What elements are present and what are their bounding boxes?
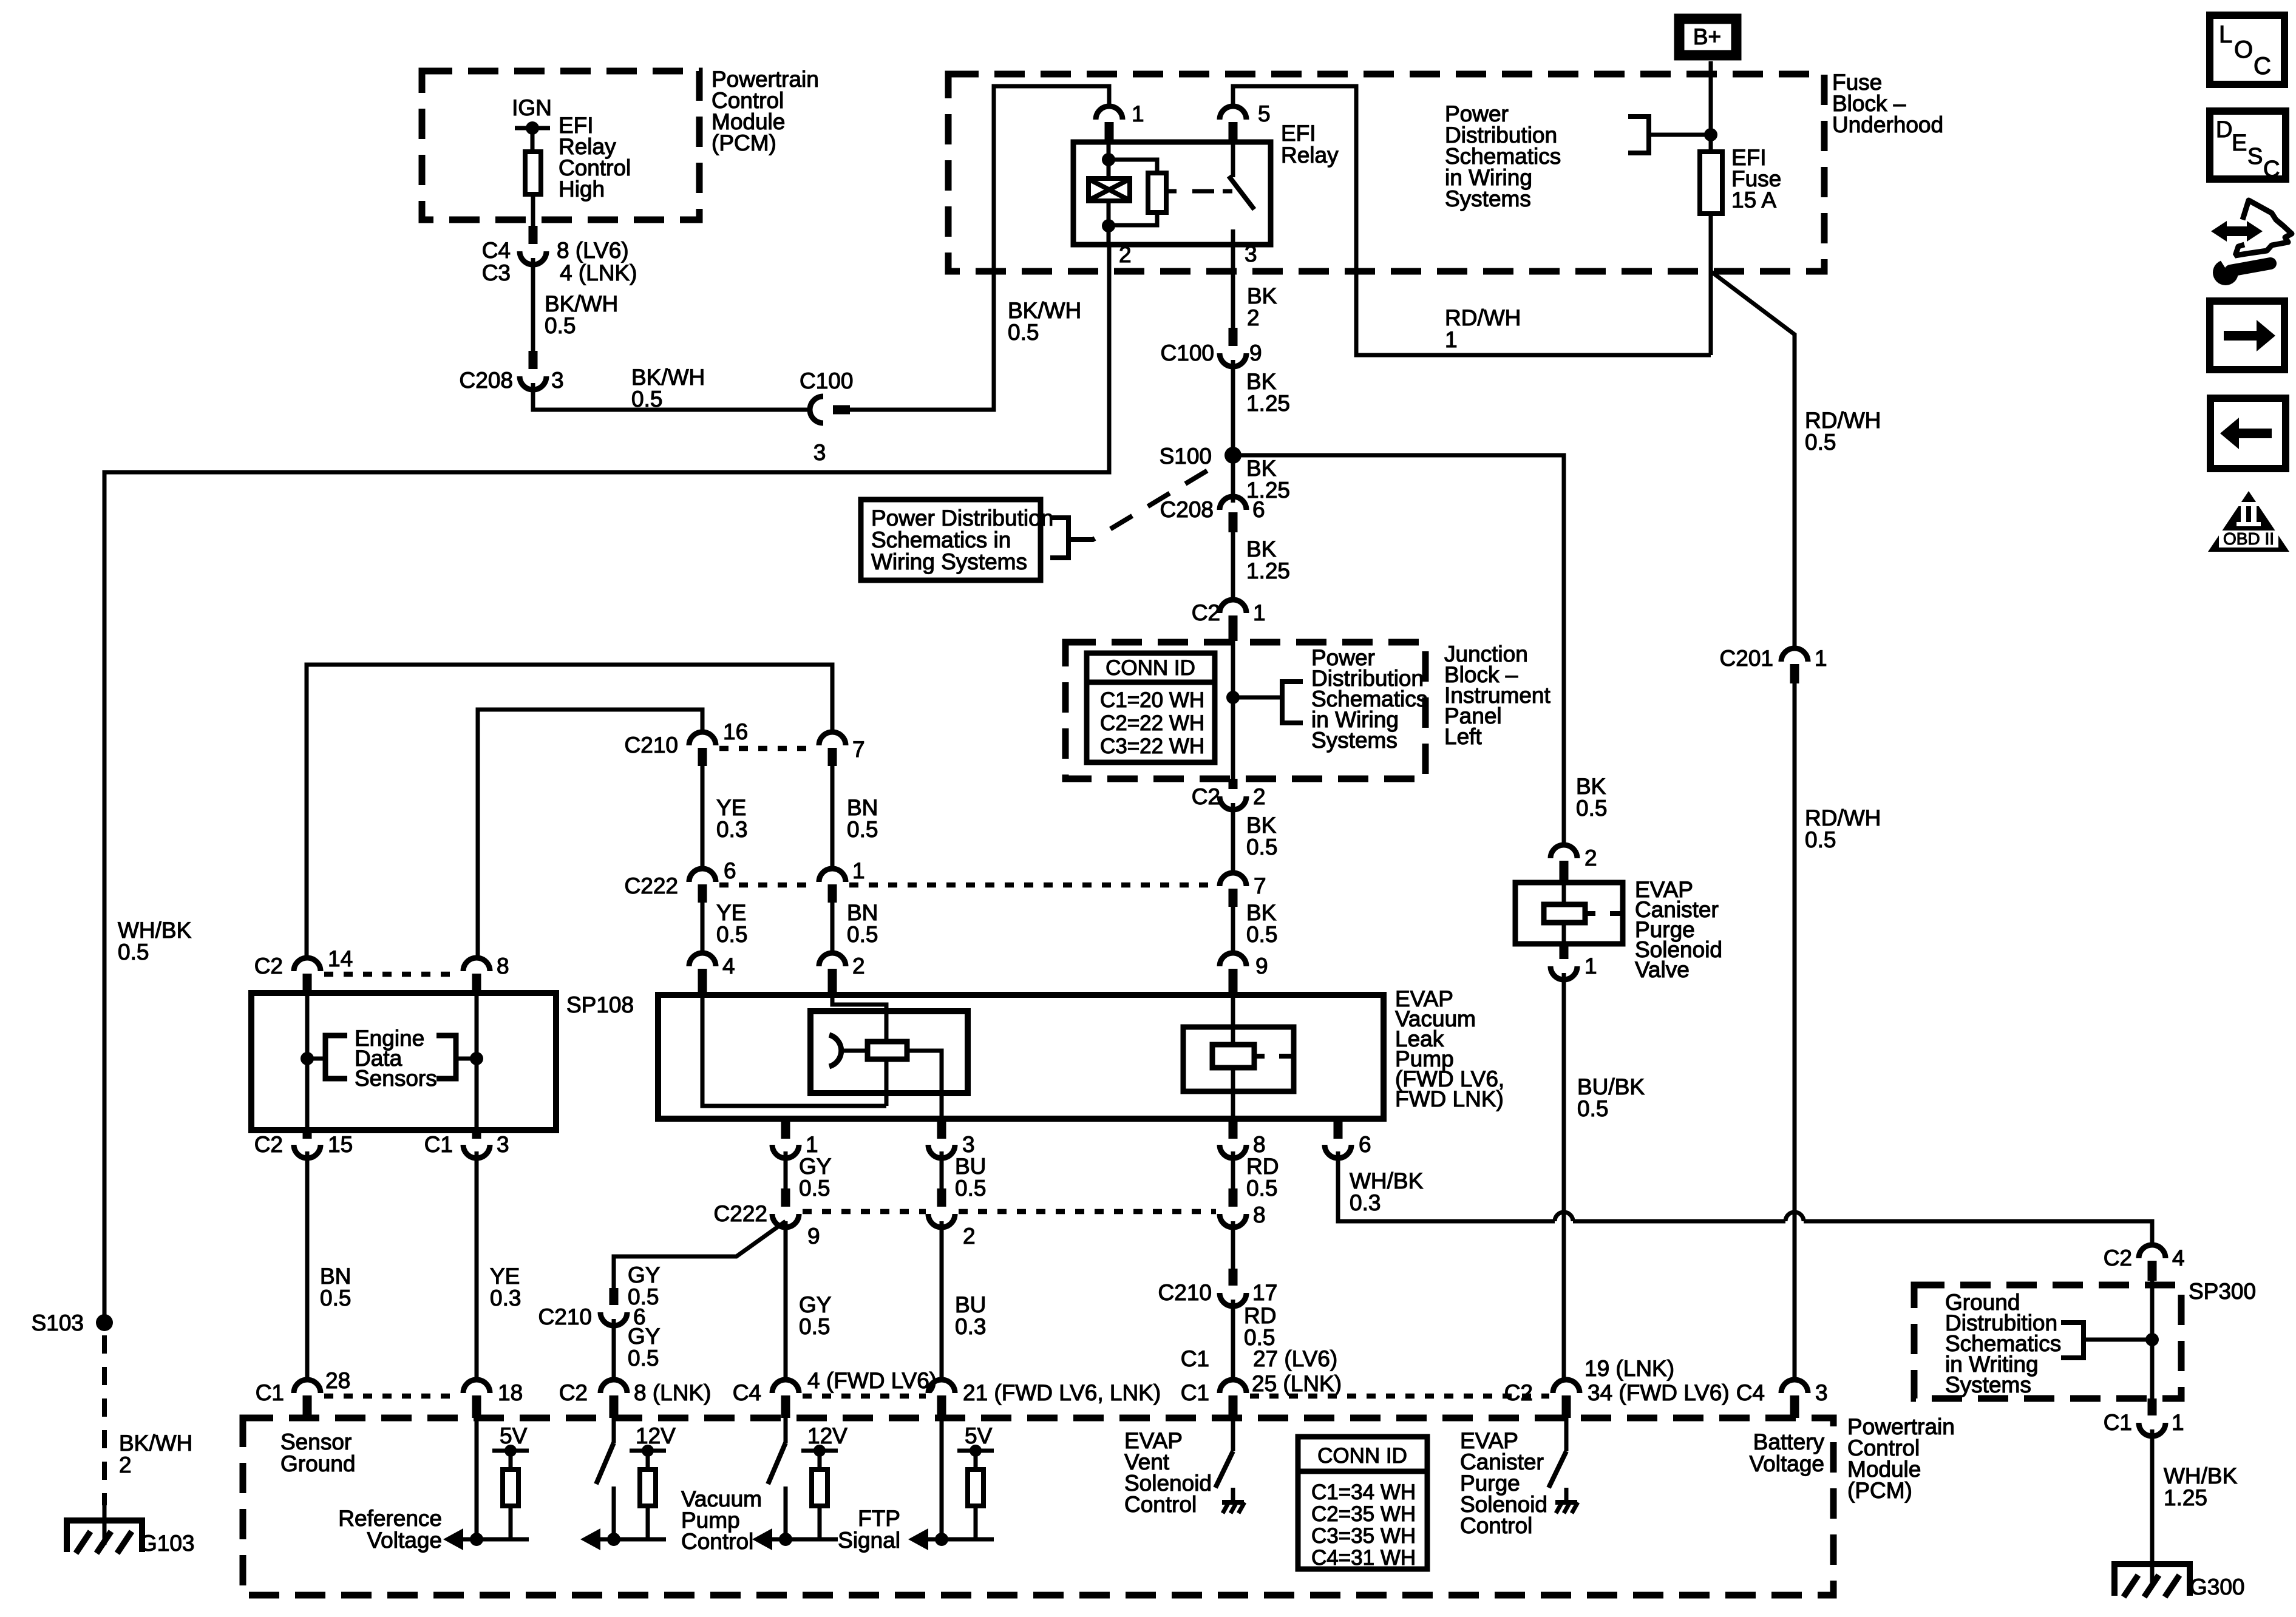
svg-text:C4: C4 [1736,1380,1765,1405]
arrow FTP column [752,1528,772,1550]
pin tick below C222-6 [698,884,707,903]
wire pin1 into coil with junction dot [1107,142,1111,178]
svg-text:BK: BK [1246,456,1277,481]
ground symbol (purge solenoid) [1564,1488,1569,1501]
svg-text:Underhood: Underhood [1832,112,1943,137]
connector C2 pin 34 arc [1553,1380,1580,1393]
wire C208-3 down and right to C100 [533,383,809,410]
wire C222-6 to pump pin 4 [701,903,705,954]
svg-text:1: 1 [1253,600,1266,625]
svg-text:0.3: 0.3 [1350,1190,1381,1215]
wire pump pin6 WH/BK 0.3 to SP300 run [1338,1151,1555,1221]
wire motor to element [843,1049,868,1053]
svg-text:C1: C1 [256,1380,284,1405]
dashed link C222 1-7 [849,883,1216,888]
connector C2 pin 15 arc [294,1145,321,1158]
svg-text:BK: BK [1246,813,1277,838]
svg-text:RD/WH: RD/WH [1805,408,1881,433]
svg-text:C1=20 WH: C1=20 WH [1100,688,1204,712]
svg-text:Battery: Battery [1753,1429,1825,1454]
ground symbol (vent solenoid) [1231,1488,1235,1501]
wire C2-15 to C1-28 [305,1151,310,1381]
wire pump pin1 to C222-9 [784,1151,788,1188]
dashed link C222 2-8 [959,1209,1216,1215]
valve solenoid element [1544,904,1585,923]
pin tick below pin 18 [472,1395,481,1418]
svg-text:C: C [2263,157,2280,182]
svg-text:Voltage: Voltage [1750,1451,1824,1476]
side icon DESC box [2210,111,2286,179]
EFI Fuse 15 A element [1700,152,1722,214]
side icon back arrow box [2210,398,2286,469]
wire valve pin 1 to C2-34 BU/BK [1562,973,1566,1381]
svg-text:BK/WH: BK/WH [631,365,705,390]
pin tick below C4-4 [781,1395,790,1418]
pin tick above C2-2 [1229,779,1238,789]
connector pin 21 arc [928,1380,955,1393]
svg-text:17: 17 [1252,1280,1277,1305]
junction dot [470,1533,483,1546]
pin tick above pump pin 3 [937,1119,946,1139]
side icon OBD II triangle [2208,491,2289,552]
pin tick above C222-2 [937,1188,946,1207]
dashed link C210 16-7 [719,746,815,751]
svg-text:27 (LV6): 27 (LV6) [1253,1346,1337,1371]
svg-text:C1: C1 [1181,1380,1209,1405]
Power Distribution Schematics in Wiring Systems note box [861,500,1041,580]
svg-text:BU/BK: BU/BK [1577,1074,1645,1099]
svg-text:C4: C4 [733,1380,761,1405]
wires through sensor box [305,993,310,1130]
connector pin 18 arc [463,1380,490,1393]
wire pump pin3 to C222-2 [940,1151,944,1188]
svg-text:C2: C2 [254,1132,283,1157]
relay coil (box with X) [1089,178,1130,201]
svg-text:0.5: 0.5 [716,922,747,947]
svg-text:C201: C201 [1720,646,1773,671]
connector C100 pin 3 arc [810,396,823,423]
svg-text:BK: BK [1246,369,1277,394]
svg-text:Control: Control [681,1529,753,1554]
svg-text:C3=35 WH: C3=35 WH [1311,1524,1416,1548]
svg-text:2: 2 [1247,305,1260,330]
svg-text:BU: BU [955,1292,986,1317]
connector C1 pin 25 arc [1220,1380,1246,1393]
svg-text:Systems: Systems [1445,186,1531,211]
solenoid break contacts [1254,1054,1265,1059]
wire SP300 run to C2-4 [1804,1221,2152,1246]
svg-text:3: 3 [551,368,564,393]
wire 7 to C222-1 [830,766,835,870]
svg-text:1.25: 1.25 [1246,391,1290,416]
pin tick above connector 8 [1229,1188,1238,1207]
wire IGN to resistor [531,128,535,152]
svg-text:C210: C210 [538,1304,592,1329]
svg-text:Sensors: Sensors [355,1066,437,1091]
svg-text:0.5: 0.5 [1805,827,1836,852]
svg-text:YE: YE [716,900,746,925]
wire C222-1 to pump pin 2 [830,903,835,954]
svg-text:1: 1 [806,1132,818,1157]
connector pump pin 2 arc [819,953,846,966]
ground G300 [2114,1564,2190,1596]
svg-text:6: 6 [1252,497,1265,522]
svg-text:0.5: 0.5 [1246,835,1277,859]
connector C222 pin 6 arc [689,869,716,882]
bracket in SP300 box [2061,1323,2084,1358]
svg-text:Power Distribution: Power Distribution [871,506,1053,531]
svg-text:Voltage: Voltage [367,1528,442,1553]
svg-text:3: 3 [813,440,826,465]
svg-text:G103: G103 [140,1531,195,1556]
connector arc 8 (lower) [1220,1214,1246,1227]
svg-text:WH/BK: WH/BK [118,918,192,943]
pump motor arc [829,1035,841,1066]
splice S100 junction dot [1224,447,1241,464]
svg-text:C: C [2254,53,2271,80]
junction dot to power distribution note [1226,691,1240,704]
junction dot on B+ wire [1704,128,1717,141]
wire fuse to block edge [1709,214,1713,271]
svg-text:S: S [2247,144,2263,169]
connector C210 pin 16 arc [689,732,716,745]
svg-text:RD: RD [1246,1154,1279,1179]
connector pump pin 3 arc [928,1145,955,1158]
dashed link C222 6-1 [719,883,815,888]
wire pump pin 9 through solenoid [1231,995,1235,1045]
wire pin18 reference voltage [475,1418,479,1539]
connector C210 pin 7 arc [819,732,846,745]
svg-text:0.5: 0.5 [1577,1096,1608,1121]
SP300 splice pack box (dashed) [1914,1285,2181,1398]
hop over RD/WH wire [1785,1212,1804,1221]
dashed leader from Power Distribution box to S100 [1070,461,1223,540]
wire into ground [103,1505,107,1545]
pin tick above C4/C3 connector [529,226,538,244]
svg-text:8: 8 [1253,1202,1266,1227]
svg-text:YE: YE [490,1264,520,1289]
svg-text:1: 1 [2172,1410,2184,1435]
svg-text:C2: C2 [1192,784,1220,809]
relay switch blade [1229,176,1254,209]
svg-text:BK: BK [1576,774,1606,799]
valve wires [1562,883,1566,904]
svg-text:C2: C2 [1504,1380,1533,1405]
svg-text:1: 1 [852,858,865,883]
connector C210 pin 6 arc [600,1312,627,1326]
svg-text:4: 4 [2172,1246,2185,1270]
connector C100 pin 9 arc [1220,353,1246,367]
bracket right of note box [1050,518,1068,558]
relay internal resistor branch [1109,160,1157,173]
pin tick below arc 7 [1229,889,1238,907]
pin tick above C2-15 [303,1130,312,1139]
svg-text:RD/WH: RD/WH [1805,805,1881,830]
svg-text:S103: S103 [32,1310,84,1335]
wire connector8 to C210-17 [1231,1221,1235,1269]
pin tick above pump pin 6 [1334,1119,1343,1139]
pin tick above C100-9 [1229,328,1238,346]
svg-text:4 (FWD LV6): 4 (FWD LV6) [807,1368,937,1393]
wire C1-3 to pin 18 [475,1151,479,1381]
pin tick above C208-3 [529,351,538,369]
svg-text:C1: C1 [2104,1410,2132,1435]
pin tick below C210-16 [698,748,707,766]
left bracket [307,1057,325,1061]
svg-text:12V: 12V [636,1423,676,1448]
svg-text:1: 1 [1445,327,1458,352]
svg-text:EFI: EFI [1281,121,1316,146]
svg-text:YE: YE [716,795,746,820]
svg-text:BN: BN [847,795,878,820]
YE wire loop from C2-8 to C210-16 [478,710,702,958]
pin tick below C2-34 [1562,1395,1571,1418]
svg-text:SP300: SP300 [2189,1279,2256,1304]
svg-text:7: 7 [1254,873,1266,898]
wire C201 down to PCM battery voltage pin [1793,683,1797,1380]
pump motor element [868,1042,907,1059]
connector C201 pin 1 arc [1781,648,1808,662]
splice S103 junction dot [96,1314,113,1331]
svg-text:8: 8 [497,954,509,978]
svg-text:C222: C222 [714,1201,767,1226]
svg-text:0.5: 0.5 [1805,430,1836,455]
wire C100-9 to S100 [1231,360,1235,455]
svg-text:2: 2 [852,954,865,978]
junction dot SP300 [2145,1333,2159,1346]
connector C222 pin 1 arc [819,869,846,882]
svg-text:BU: BU [955,1154,986,1179]
svg-text:2: 2 [963,1224,976,1249]
svg-text:Relay: Relay [1281,143,1339,168]
EFI relay pin 5 arc [1220,106,1246,120]
svg-text:C4=31 WH: C4=31 WH [1311,1546,1416,1570]
svg-text:E: E [2232,131,2247,156]
connector C2 pin 14 arc [294,958,321,971]
svg-text:0.5: 0.5 [1008,320,1039,345]
connector pump pin 1 arc [772,1145,799,1158]
svg-text:G300: G300 [2190,1575,2245,1599]
svg-text:C2=35 WH: C2=35 WH [1311,1502,1416,1526]
wire 16 to C222-6 [701,766,705,870]
pin tick above C222-9 [781,1188,790,1207]
svg-text:BK/WH: BK/WH [119,1431,192,1456]
connector arc 7 (C222 row) [1220,873,1246,886]
svg-text:8: 8 [1253,1132,1266,1157]
svg-text:C2: C2 [559,1380,588,1405]
svg-text:C3: C3 [482,260,511,285]
wire C100 right, up, and to relay pin 1 [849,86,1109,410]
svg-text:BK: BK [1247,283,1277,308]
svg-text:25 (LNK): 25 (LNK) [1252,1371,1342,1396]
svg-text:High: High [559,177,605,202]
side icon service glyph (arrows and wrench) [2211,200,2292,285]
svg-text:BK: BK [1246,537,1277,561]
svg-text:Reference: Reference [338,1506,442,1531]
relay switch lower contact to pin 3 [1231,229,1235,245]
svg-text:BK: BK [1246,900,1277,925]
wire C210-6 to C2-8(LNK) [612,1319,616,1381]
svg-text:GY: GY [628,1263,660,1287]
svg-text:FWD LNK): FWD LNK) [1395,1086,1504,1111]
svg-text:GY: GY [799,1292,831,1317]
bracket and note inside junction block [1233,696,1282,700]
resistor EFI Relay Control High (inside PCM) [525,152,541,194]
svg-text:GY: GY [628,1324,660,1349]
connector pump pin 8 arc [1220,1145,1246,1158]
pin tick below C222-1 [828,884,837,903]
Engine Data Sensors box (SP108) [251,993,556,1130]
wire C222-2 down to pin 21 [940,1221,944,1381]
Fuse Block - Underhood box (dashed) [948,74,1824,271]
svg-text:4: 4 [722,954,735,978]
svg-text:OBD II: OBD II [2223,529,2274,548]
junction dot [935,1533,948,1546]
svg-text:0.3: 0.3 [716,817,747,842]
PCM bottom box (dashed) [243,1418,1833,1595]
wire C208-6 to C2-1 [1231,532,1235,601]
dashed link 4-21 [803,1394,926,1399]
svg-text:0.5: 0.5 [847,922,878,947]
svg-text:L: L [2219,21,2232,48]
pin tick below C201 [1790,664,1799,683]
svg-text:C100: C100 [800,368,853,393]
wire C222-9 straight down to C4-4 [784,1221,788,1381]
svg-text:Signal: Signal [838,1528,900,1553]
svg-text:0.5: 0.5 [847,817,878,842]
wire coil to lower junction dot [1107,201,1111,245]
svg-text:0.5: 0.5 [1246,922,1277,947]
arrow pin21 column [908,1528,928,1550]
wire relay pin5 loop to RD/WH drop [1233,86,1711,355]
svg-text:CONN ID: CONN ID [1106,656,1195,680]
wire C1-1 to G300 [2150,1429,2155,1584]
pin tick below C2-14 [303,974,312,993]
connector C4 pin 4 arc [772,1380,799,1393]
pin tick below relay pin 5 [1229,122,1238,141]
svg-text:C210: C210 [625,733,678,758]
svg-text:0.5: 0.5 [628,1346,659,1371]
svg-text:2: 2 [119,1453,132,1477]
connector pump pin 4 arc [689,953,716,966]
wire C4-4 FTP signal with switch [784,1418,788,1443]
svg-text:(PCM): (PCM) [712,131,776,155]
svg-text:0.3: 0.3 [955,1314,986,1339]
svg-text:14: 14 [328,946,353,971]
svg-text:C208: C208 [460,368,513,393]
pin tick below C2-1 [1229,615,1238,641]
connector pump pin 9 arc [1220,953,1246,966]
IGN node bar and junction dot [515,126,550,131]
svg-text:2: 2 [1119,242,1132,267]
wire C2-8LNK vacuum pump control with switch [612,1418,616,1443]
svg-text:FTP: FTP [858,1506,900,1531]
svg-text:16: 16 [723,719,748,744]
svg-text:Systems: Systems [1945,1372,2031,1397]
connector C2 pin 8 (LNK) arc [600,1380,627,1393]
pin tick above C210-17 [1229,1269,1238,1286]
svg-text:C4: C4 [482,238,511,263]
pin tick below C1-25 [1229,1395,1238,1418]
wire C2-2 to connector 7 [1231,803,1235,874]
pin tick above C1-1 [2148,1398,2157,1415]
svg-text:0.5: 0.5 [320,1286,351,1310]
connector purge valve pin 2 arc [1550,845,1577,858]
svg-text:C2: C2 [2104,1246,2132,1270]
svg-text:15: 15 [328,1132,353,1157]
svg-text:0.5: 0.5 [799,1314,830,1339]
pin tick below C208-6 [1229,512,1238,532]
PCM top-left module box (dashed) [422,71,699,220]
B+ power feed box [1679,19,1736,55]
svg-text:Valve: Valve [1635,957,1690,982]
svg-text:C3=22 WH: C3=22 WH [1100,734,1204,758]
wire SP300 run continues [1573,1219,1785,1224]
svg-text:Systems: Systems [1311,728,1398,753]
svg-text:IGN: IGN [512,95,552,120]
EFI relay pin 1 arc [1096,106,1123,120]
CONN ID table (junction block) [1087,653,1215,762]
svg-text:0.5: 0.5 [118,940,149,964]
connector C2 pin 4 arc [2139,1245,2165,1258]
svg-text:RD/WH: RD/WH [1445,305,1521,330]
connector C222 pin 2 arc [928,1214,955,1227]
connector C4 pin 3 arc (battery voltage) [1781,1380,1808,1393]
wire through SP300 [2150,1281,2155,1398]
connector C4/C3 arc [520,251,546,265]
svg-text:SP108: SP108 [566,992,634,1017]
pin tick below C2-4 [2148,1261,2157,1281]
connector pump pin 6 arc [1325,1145,1351,1158]
svg-text:C2=22 WH: C2=22 WH [1100,711,1204,735]
connector C2 pin 1 arc [1220,600,1246,613]
svg-text:BK/WH: BK/WH [1008,298,1081,323]
svg-text:4 (LNK): 4 (LNK) [560,260,637,285]
svg-text:2: 2 [1584,846,1597,870]
relay actuation dashed link [1166,189,1177,194]
wire fuse-block exit down to pin5 loop (RD/WH 1) [1709,271,1713,355]
svg-text:O: O [2234,36,2253,63]
Junction Block - Instrument Panel Left box (dashed) [1065,642,1425,779]
svg-text:0.5: 0.5 [955,1176,986,1201]
element right wire to pin 3 [907,1051,942,1119]
svg-text:1.25: 1.25 [2164,1485,2207,1510]
connector C2 pin 2 arc [1220,796,1246,810]
svg-text:D: D [2216,117,2232,143]
svg-text:0.5: 0.5 [799,1176,830,1201]
pump solenoid box [1183,1027,1294,1091]
svg-text:8 (LNK): 8 (LNK) [634,1380,711,1405]
svg-text:3: 3 [1815,1380,1828,1405]
arrow reference voltage [443,1528,463,1550]
wire B+ to EFI fuse [1709,61,1713,152]
svg-text:(PCM): (PCM) [1847,1478,1912,1503]
svg-text:3: 3 [962,1132,975,1157]
dashed link 28-18 [324,1394,460,1399]
svg-text:C2: C2 [254,954,283,978]
junction dot [779,1533,792,1546]
arrow vacuum pump control [580,1528,600,1550]
dashed link C222 9-2 [803,1209,926,1215]
svg-text:34 (FWD LV6): 34 (FWD LV6) [1588,1380,1730,1405]
svg-text:RD: RD [1244,1303,1276,1328]
svg-text:28: 28 [325,1368,350,1393]
hop over purge solenoid wire [1555,1212,1573,1221]
connector valve pin 1 arc [1550,966,1577,980]
svg-text:C222: C222 [625,873,678,898]
svg-text:BN: BN [320,1264,351,1289]
svg-text:5V: 5V [500,1423,528,1448]
